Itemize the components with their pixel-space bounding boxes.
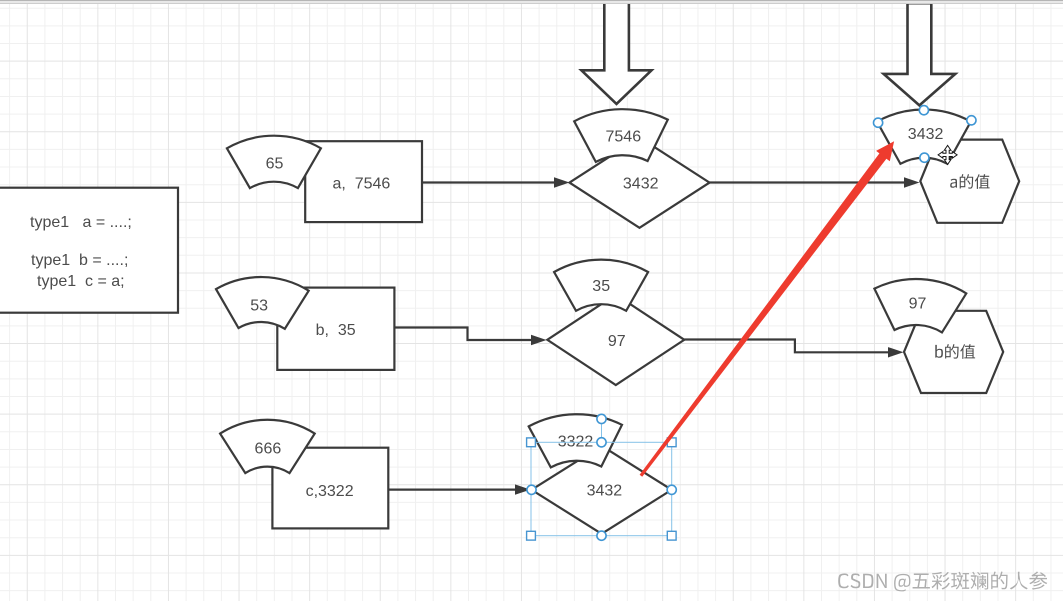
- svg-text:666: 666: [255, 441, 282, 458]
- svg-text:97: 97: [608, 333, 626, 350]
- rect b,35: [277, 288, 394, 370]
- svg-text:7546: 7546: [606, 129, 642, 146]
- wire arrow rect-a to diamond-1: [422, 177, 570, 187]
- red annotation arrow: [640, 141, 895, 476]
- selection box row 3: [531, 419, 672, 536]
- fan 3322: [529, 414, 622, 467]
- svg-text:c,3322: c,3322: [306, 483, 354, 500]
- selection circle handles fan 3432: [874, 106, 977, 163]
- fan 666: [220, 420, 315, 473]
- svg-text:97: 97: [909, 296, 927, 313]
- fan 53: [216, 277, 309, 329]
- rect c,3322: [272, 448, 388, 529]
- watermark CSDN: [838, 572, 1047, 592]
- fan 7546: [574, 109, 668, 162]
- big down arrow 1: [581, 0, 651, 104]
- wire arrow rect-b to diamond-2 (stepped): [394, 328, 546, 346]
- selection circle handles row 3: [527, 414, 676, 540]
- svg-text:type1 b = ....;: type1 b = ....;: [31, 252, 128, 269]
- fan 35: [554, 260, 648, 311]
- svg-text:53: 53: [250, 298, 268, 315]
- fan 3432 (row 1 right, selected): [877, 109, 971, 163]
- fan 97: [874, 279, 966, 332]
- diamond 2: [547, 295, 684, 385]
- hexagon a value: [920, 140, 1019, 223]
- diamond 1: [570, 137, 710, 227]
- selection corner handles row 3: [527, 438, 677, 540]
- diamond 3 (selected): [532, 446, 672, 534]
- code box: [0, 188, 178, 313]
- svg-text:3432: 3432: [908, 126, 944, 143]
- svg-text:35: 35: [592, 278, 610, 295]
- svg-text:b, 35: b, 35: [316, 322, 356, 339]
- svg-text:3432: 3432: [587, 483, 623, 500]
- svg-text:3432: 3432: [623, 176, 659, 193]
- hexagon b value: [904, 311, 1003, 393]
- svg-text:65: 65: [266, 156, 284, 173]
- wire arrow diamond-2 to hex-b (stepped): [684, 340, 903, 358]
- wire arrow diamond-1 to hex-a: [710, 177, 920, 187]
- wire arrow rect-c to diamond-3: [388, 484, 530, 494]
- big down arrow 2: [884, 3, 956, 105]
- svg-text:type1 a = ....;: type1 a = ....;: [30, 214, 132, 231]
- fan 65: [227, 136, 321, 188]
- svg-text:a, 7546: a, 7546: [332, 176, 390, 193]
- svg-text:type1 c = a;: type1 c = a;: [37, 273, 125, 290]
- move cursor icon: [938, 145, 957, 164]
- rect a,7546: [305, 141, 422, 222]
